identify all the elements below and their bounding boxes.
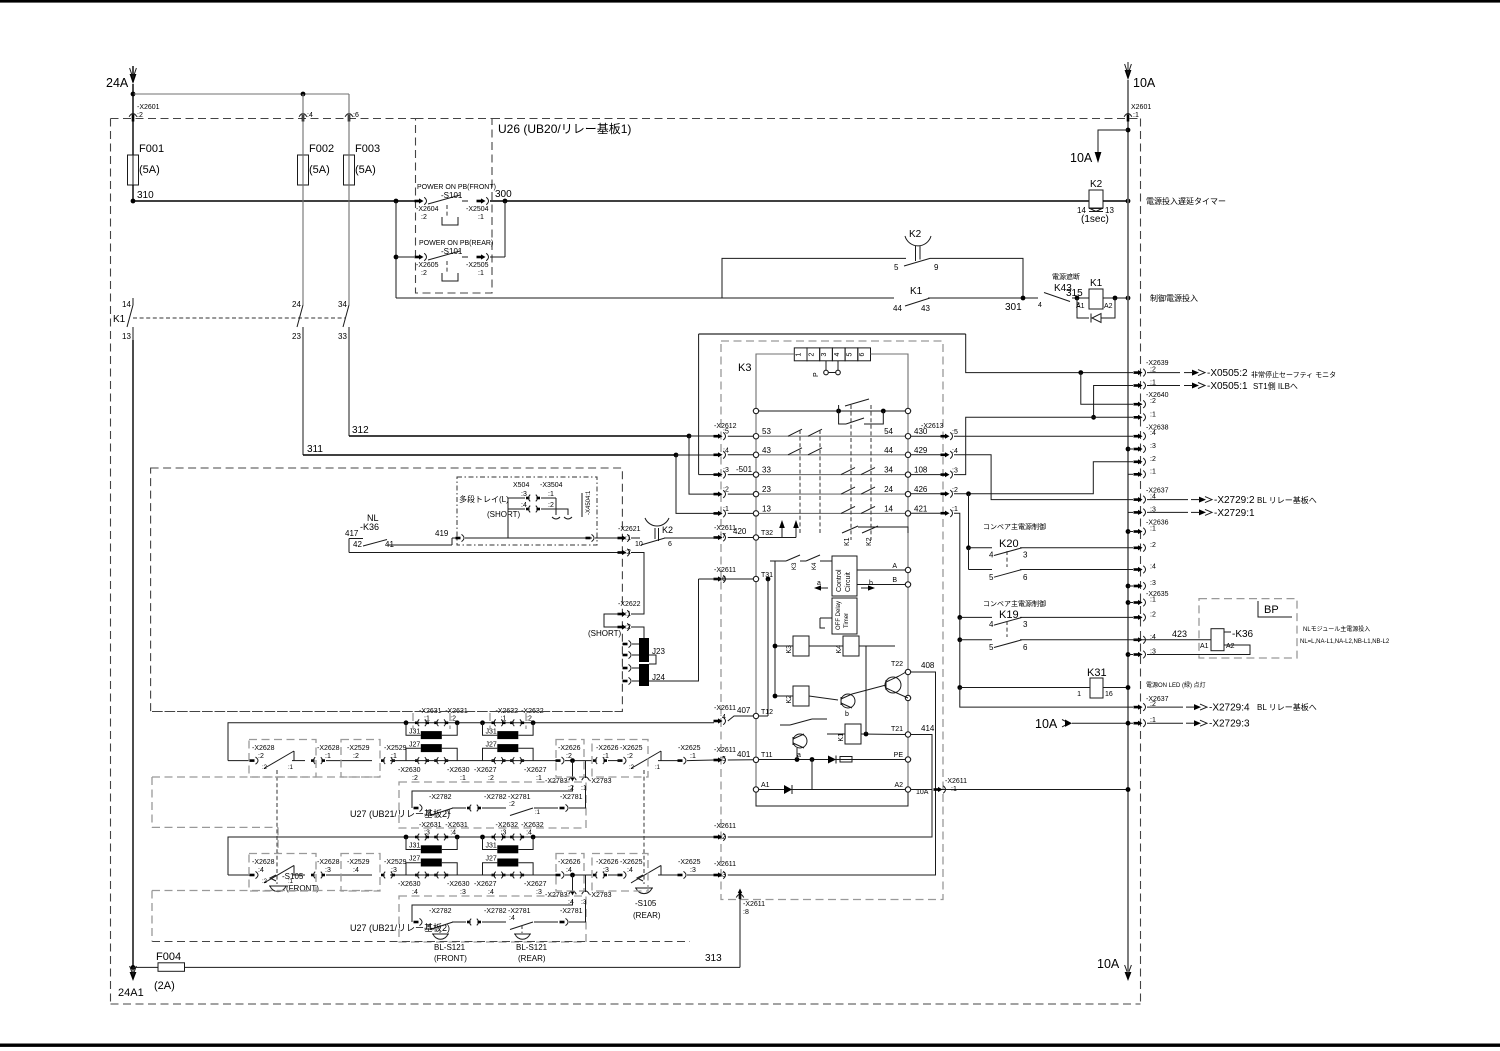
svg-text::2: :2: [509, 801, 515, 808]
label -X2640: [1146, 392, 1169, 399]
jumper block X2631: [398, 708, 470, 782]
svg-text:6: 6: [859, 352, 866, 356]
svg-text:44: 44: [893, 304, 902, 313]
10A bottom arrow: [1125, 965, 1132, 981]
K3 contact row 53-54: [753, 427, 928, 439]
wire 407 loop top: [228, 723, 714, 761]
svg-text:-X2631: -X2631: [445, 822, 468, 829]
node B2 jumper right: [531, 835, 536, 840]
wire X2729:1 out: [1147, 508, 1255, 519]
K2 contact arc: [645, 518, 669, 541]
switch S101 front: [428, 195, 468, 204]
svg-text:(REAR): (REAR): [518, 954, 546, 963]
connector -X2638:4: [1134, 430, 1156, 440]
svg-text:4: 4: [989, 620, 994, 629]
S105 rear actuator: [633, 770, 661, 920]
connector X2611:4: [714, 717, 726, 725]
K3 right rail: [907, 413, 909, 792]
top border bar: [0, 0, 1500, 3]
svg-text:43: 43: [762, 446, 771, 455]
wire X2783:4 drop: [572, 875, 574, 892]
connector X2628:4: [250, 859, 275, 879]
label -X2635: [1146, 591, 1169, 598]
svg-text::3: :3: [720, 872, 726, 879]
connector X2611:1: [934, 778, 968, 793]
svg-text::4: :4: [723, 447, 729, 454]
svg-text::2: :2: [952, 487, 958, 494]
svg-text:-S105: -S105: [282, 872, 304, 881]
svg-text:A: A: [892, 563, 897, 570]
svg-text::3: :3: [952, 468, 958, 475]
U27 board B dashed box: [399, 896, 586, 942]
svg-text:54: 54: [884, 427, 893, 436]
label POWER ON PB FRONT: [417, 184, 496, 191]
svg-text:b: b: [845, 711, 849, 718]
label F001: [139, 143, 164, 155]
svg-text::2: :2: [720, 834, 726, 841]
wire chain B10: [687, 874, 714, 876]
fuse F001: [128, 155, 139, 185]
svg-text:-X2626: -X2626: [596, 859, 619, 866]
svg-text:制御電源投入: 制御電源投入: [1150, 293, 1198, 303]
connector J23 b: [623, 651, 640, 658]
wire K3K4 coils: [773, 561, 895, 696]
svg-text:6: 6: [1023, 573, 1028, 582]
svg-text:B: B: [892, 577, 897, 584]
svg-text:T32: T32: [761, 530, 773, 537]
wire K19 pin5: [957, 637, 992, 687]
K3 terminal A1: [753, 782, 769, 792]
wire -501 to X2612:3: [699, 465, 753, 475]
svg-text:1: 1: [1077, 691, 1081, 698]
K3 module dashed boundary: [721, 341, 943, 900]
node B2 jumper left: [480, 835, 485, 840]
K20 linkage: [1006, 551, 1008, 567]
jumper block X2631 B: [398, 822, 470, 896]
svg-text::2: :2: [526, 715, 532, 722]
svg-text:-S105: -S105: [635, 899, 657, 908]
connector pair X2628:3-X2529:4: [311, 859, 370, 878]
svg-text:b: b: [869, 580, 873, 587]
connector X2783:4: [545, 891, 576, 906]
connector -X2640:1: [1134, 411, 1156, 421]
fuse F004: [133, 963, 185, 972]
K3 plug P jumper: [813, 361, 840, 377]
contact K1 drive: [780, 719, 827, 725]
wire X2783:3 drop: [585, 875, 587, 892]
svg-text:3: 3: [821, 352, 828, 356]
svg-text:10A: 10A: [1070, 151, 1093, 165]
S105 front actuator: [269, 770, 319, 893]
label control power on: [1150, 293, 1198, 303]
connector -X2638:2: [1134, 456, 1156, 466]
svg-text:-X2627: -X2627: [524, 881, 547, 888]
wire K19 pin4: [957, 615, 992, 640]
connector X2625:2: [618, 745, 643, 764]
svg-text:407: 407: [737, 706, 751, 715]
svg-text:-X2631: -X2631: [419, 822, 442, 829]
connector pair X2629:1: [381, 745, 407, 764]
relay coil K2 internal: [786, 686, 809, 706]
node 300: [495, 189, 512, 203]
connector -X2640:2: [1134, 398, 1156, 408]
connector X2505:1: [477, 253, 489, 261]
label X2611:7: [714, 525, 736, 540]
svg-text::4: :4: [450, 830, 456, 837]
label conveyor main power 2: [983, 599, 1046, 608]
svg-text:33: 33: [762, 466, 771, 475]
svg-text:A1: A1: [1200, 643, 1209, 650]
svg-text:3: 3: [1023, 551, 1028, 560]
svg-text:419: 419: [435, 529, 449, 538]
svg-text::5: :5: [723, 429, 729, 436]
contact K1 44-43: [893, 298, 930, 313]
svg-text::3: :3: [536, 889, 542, 896]
label POWER ON PB REAR: [419, 240, 493, 247]
wire 334 safety loop: [699, 333, 966, 335]
label S101 rear: [441, 247, 463, 256]
svg-text:BP: BP: [1264, 604, 1279, 616]
svg-text:426: 426: [914, 485, 928, 494]
node PB branch: [394, 199, 399, 204]
svg-text:A2: A2: [894, 782, 903, 789]
svg-text:14: 14: [884, 504, 893, 513]
wire chain A: [228, 760, 252, 762]
svg-text:K2: K2: [662, 525, 673, 535]
K2 timer symbol: [905, 236, 931, 261]
contact K2 5-9: [894, 258, 939, 272]
label F003: [355, 143, 380, 155]
pushbutton actuator rear: [442, 261, 458, 281]
node 315: [1066, 288, 1083, 300]
svg-text::2: :2: [258, 753, 264, 760]
svg-text::2: :2: [262, 765, 268, 771]
connector X2626:2: [556, 745, 581, 764]
svg-text:2: 2: [808, 352, 815, 356]
svg-text::1: :1: [1133, 112, 1139, 119]
svg-text::2: :2: [488, 775, 494, 782]
node B1 jumper left: [404, 835, 409, 840]
wire K1 to bus: [1103, 296, 1130, 301]
svg-text::1: :1: [391, 753, 397, 760]
svg-text:-X2627: -X2627: [524, 767, 547, 774]
svg-text:NLモジュール主電源投入: NLモジュール主電源投入: [1303, 625, 1370, 633]
wire 24A top branch: [133, 92, 349, 97]
wire 313: [185, 895, 741, 967]
wire X2612:5 inside: [728, 435, 754, 437]
BL-S121 rear actuator: [514, 925, 548, 963]
wire T22 node: [852, 685, 886, 694]
label F004: [156, 951, 181, 963]
label 420: [733, 527, 747, 536]
connector X2612:4: [714, 447, 729, 458]
label K36 coil: [1224, 629, 1254, 640]
U27 A circuit: [412, 786, 586, 816]
svg-text::1: :1: [690, 753, 696, 760]
jumper J24: [639, 664, 665, 686]
label U26: [498, 122, 631, 136]
svg-text:4: 4: [834, 352, 841, 356]
wire T31 feed: [699, 578, 754, 580]
wire X0505:1 out: [1147, 381, 1248, 392]
svg-text:J27: J27: [486, 741, 497, 748]
svg-text:423: 423: [1172, 629, 1187, 639]
wire chain B4: [390, 874, 556, 876]
svg-text::6: :6: [353, 112, 359, 119]
node B1 jumper right: [455, 835, 460, 840]
svg-text:24A1: 24A1: [118, 987, 144, 999]
svg-text::3: :3: [690, 867, 696, 874]
svg-text:16: 16: [1105, 691, 1113, 698]
svg-text:-X2632: -X2632: [521, 822, 544, 829]
svg-text:-X2781: -X2781: [508, 908, 531, 915]
svg-text:OFF Delay: OFF Delay: [836, 601, 842, 630]
svg-text:24: 24: [292, 300, 301, 309]
wire 419: [387, 529, 457, 545]
bottom border bar: [0, 1044, 1500, 1047]
wire X2637:3 stub: [1128, 511, 1133, 513]
K3 row top: [753, 408, 910, 413]
label 10A top: [1133, 76, 1156, 90]
svg-text:K1: K1: [1090, 278, 1103, 289]
transistor b: [841, 694, 855, 718]
wire PE row: [759, 757, 906, 762]
wire X2729:4 row: [960, 688, 1133, 708]
contact K36 42-41: [353, 540, 394, 550]
svg-text:F003: F003: [355, 143, 380, 155]
wire K1 coil: [827, 732, 905, 737]
wire 10A in: [1072, 721, 1133, 726]
svg-text:-X2505: -X2505: [466, 262, 489, 269]
PE resistor: [840, 757, 852, 763]
svg-text:-X2729:4: -X2729:4: [1209, 703, 1250, 714]
svg-text:5: 5: [989, 643, 994, 652]
K1 suppressor diode: [1077, 298, 1115, 323]
wire K2 coil: [773, 694, 838, 700]
svg-text::1: :1: [1150, 597, 1156, 604]
bus 10A vertical: [1127, 80, 1129, 971]
arrow a out: [814, 580, 828, 591]
svg-text:BL-S121: BL-S121: [516, 943, 548, 952]
K3 contact row 13-14: [753, 504, 928, 516]
svg-text::4: :4: [426, 924, 432, 930]
label K2 small: [662, 525, 673, 535]
svg-text:300: 300: [495, 189, 512, 200]
svg-text:-X2632: -X2632: [496, 822, 519, 829]
svg-text:44: 44: [884, 446, 893, 455]
wire chain A3: [326, 760, 372, 762]
svg-text:10A: 10A: [916, 789, 929, 796]
svg-text:401: 401: [737, 750, 751, 759]
wire 315: [1072, 297, 1089, 299]
svg-text:414: 414: [921, 724, 935, 733]
label timer function: [1146, 196, 1226, 206]
wire 426 to X2638:2: [954, 462, 1133, 496]
svg-text:-X2783: -X2783: [589, 778, 612, 785]
svg-text:-X2611: -X2611: [945, 778, 967, 785]
wire 312 to X2612:2: [689, 436, 714, 494]
svg-text:-K36: -K36: [360, 522, 379, 532]
svg-text:-X2529: -X2529: [347, 859, 370, 866]
svg-text:-X2783: -X2783: [589, 892, 612, 899]
wire X2639:1 net: [1091, 386, 1133, 420]
label F003 rating: [355, 164, 376, 176]
svg-text:-X2611: -X2611: [714, 705, 736, 712]
svg-text::2: :2: [262, 879, 268, 885]
label X2601:4: [307, 112, 313, 119]
svg-text:43: 43: [921, 304, 930, 313]
svg-text::3: :3: [391, 867, 397, 874]
svg-text:A2: A2: [1104, 303, 1113, 310]
connector X2611:5: [714, 756, 726, 764]
wire chain B2: [292, 874, 305, 876]
connector X2605:2: [415, 253, 427, 261]
connector -X2638:1: [1134, 468, 1156, 478]
wire X2622:2 to J23: [631, 627, 644, 638]
connector X2612:2: [714, 487, 729, 498]
svg-text::3: :3: [460, 889, 466, 896]
label K19: [999, 609, 1019, 621]
svg-text:-X2729:3: -X2729:3: [1209, 719, 1250, 730]
svg-text:6: 6: [1023, 643, 1028, 652]
wire 430 to X2638:4: [954, 435, 1133, 437]
label F004 rating: [154, 980, 175, 992]
svg-text:-X2611: -X2611: [714, 747, 736, 754]
svg-text:多段トレイ(L): 多段トレイ(L): [459, 494, 509, 504]
label K1 coil: [1090, 278, 1103, 289]
label X3504: [540, 482, 563, 509]
svg-text:-X2729:2: -X2729:2: [1214, 495, 1255, 506]
svg-text:-X0505:2: -X0505:2: [1207, 368, 1248, 379]
svg-text::1: :1: [446, 810, 452, 816]
svg-text:J31: J31: [409, 728, 420, 735]
connector X2613:4: [941, 448, 958, 459]
relay coil K2 timer: [1089, 190, 1103, 208]
svg-text:311: 311: [307, 444, 323, 455]
wire chain A4: [390, 760, 556, 762]
wire tray out: [595, 537, 621, 539]
node A2 jumper right: [531, 720, 536, 725]
U27 board A dashed box: [399, 782, 586, 828]
svg-text:13: 13: [122, 332, 131, 341]
wire X2729:2 out: [1147, 495, 1255, 506]
svg-text:POWER ON PB(REAR): POWER ON PB(REAR): [419, 240, 493, 247]
label -X2639: [1146, 360, 1169, 367]
wire X2635:1 stub: [1126, 600, 1133, 605]
svg-text:-X2611: -X2611: [743, 901, 765, 908]
svg-text::1: :1: [625, 611, 631, 618]
svg-text:X2601: X2601: [1131, 104, 1151, 111]
contact K2 10-6: [635, 538, 672, 548]
tray switch A front: [262, 751, 294, 771]
wire chain B8: [608, 874, 620, 876]
label 10A mid: [1035, 717, 1058, 731]
K3 contact row 33-34: [753, 466, 928, 478]
svg-text:(1sec): (1sec): [1081, 214, 1109, 225]
wire X2783:2 drop: [572, 761, 574, 778]
svg-text:J31: J31: [409, 843, 420, 850]
wire K20 pin4: [966, 545, 992, 569]
wire left rail upper: [132, 84, 134, 155]
label K2 contact: [909, 229, 922, 240]
svg-text::1: :1: [288, 765, 294, 771]
label X2611:5: [714, 747, 736, 763]
label conveyor main power 1: [983, 522, 1046, 531]
relay coil K1 internal: [838, 724, 861, 744]
svg-text:-X2782: -X2782: [484, 908, 507, 915]
svg-text:非常停止セーフティ モニタ: 非常停止セーフティ モニタ: [1251, 370, 1336, 379]
svg-text::2: :2: [412, 775, 418, 782]
control circuit box: [832, 556, 857, 596]
wire X2635:3 to bus: [1126, 652, 1133, 657]
node 311 branch: [674, 453, 679, 458]
svg-text::4: :4: [566, 867, 572, 874]
connector -X2635:1: [1134, 597, 1156, 607]
svg-text:34: 34: [884, 466, 893, 475]
svg-text:-X2628: -X2628: [317, 859, 340, 866]
svg-text::2: :2: [548, 502, 554, 509]
wire drive row: [770, 560, 832, 562]
K3 terminal T21: [891, 724, 935, 737]
svg-text:(SHORT): (SHORT): [588, 629, 622, 638]
svg-text:108: 108: [914, 466, 928, 475]
connector pair X2626:1: [593, 745, 619, 764]
label K1 contact: [910, 286, 923, 297]
connector pair X2626:3: [593, 859, 619, 878]
svg-text:-X2630: -X2630: [447, 881, 470, 888]
10A top arrow: [1125, 62, 1132, 80]
svg-text::5: :5: [952, 429, 958, 436]
svg-text::1: :1: [1150, 411, 1156, 418]
connector -X2637:3: [1134, 506, 1156, 516]
tray entry connector: [456, 534, 595, 541]
svg-text:P: P: [813, 372, 820, 377]
svg-text:K1: K1: [844, 537, 851, 546]
connector X2601:4: [299, 114, 307, 122]
connector J24 b: [623, 677, 640, 684]
svg-text::2: :2: [1150, 456, 1156, 463]
wire rear to 300: [490, 201, 505, 257]
node A1 jumper right: [455, 720, 460, 725]
K3 terminal A2: [894, 782, 928, 796]
svg-text:(5A): (5A): [309, 164, 330, 176]
svg-text:NL=L,NA-L1,NA-L2,NB-L1,NB-L2: NL=L,NA-L1,NA-L2,NB-L1,NB-L2: [1300, 639, 1390, 645]
svg-text:A2: A2: [1226, 643, 1235, 650]
U26 board dashed boundary: [111, 119, 1141, 1005]
svg-text:-X2604: -X2604: [416, 206, 439, 213]
pushbutton actuator front: [442, 205, 458, 225]
node 312 branch: [687, 434, 692, 439]
connector -X2635:4: [1134, 634, 1156, 644]
wire X2612:3 inside: [728, 474, 754, 476]
connector X2601:2: [129, 114, 137, 122]
wire X2638:1 stub: [1128, 473, 1133, 475]
svg-text:-X2630: -X2630: [398, 767, 421, 774]
svg-text::2: :2: [629, 765, 635, 771]
svg-text:-X2625: -X2625: [620, 745, 643, 752]
connector X2612:3: [714, 467, 729, 478]
relay coil K31: [1090, 678, 1103, 698]
wire 312: [349, 425, 689, 436]
label -X2637: [1146, 488, 1169, 495]
svg-text:-X2626: -X2626: [558, 745, 581, 752]
wire X2638:3 stub: [1126, 447, 1133, 452]
svg-text:313: 313: [705, 953, 722, 964]
svg-text:-X2782: -X2782: [429, 908, 452, 915]
svg-text:13: 13: [762, 504, 771, 513]
svg-text::1: :1: [478, 270, 484, 277]
label NL lamps: [1300, 639, 1390, 645]
